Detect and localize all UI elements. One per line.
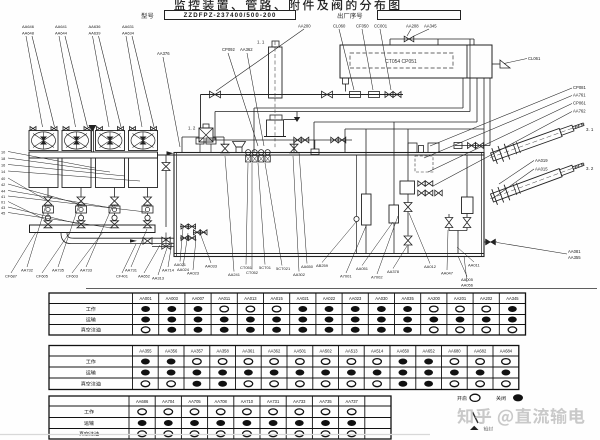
- svg-text:AA705: AA705: [188, 399, 201, 404]
- svg-text:5CT021: 5CT021: [276, 266, 291, 271]
- svg-text:5CT01: 5CT01: [259, 265, 272, 270]
- oval fitting inside tank: [454, 143, 462, 149]
- svg-text:AA682: AA682: [474, 349, 487, 354]
- bushing 1.1 cap: [272, 41, 279, 47]
- turret under bushing 1.1: [270, 115, 282, 120]
- relay to tank pipes: [213, 136, 224, 138]
- leader CC001: [380, 29, 391, 90]
- svg-text:AA208: AA208: [406, 24, 419, 29]
- svg-text:CP092: CP092: [222, 47, 235, 52]
- svg-text:AA345: AA345: [506, 296, 519, 301]
- svg-text:AA011: AA011: [218, 296, 231, 301]
- svg-text:AA202: AA202: [480, 296, 493, 301]
- valve on pipe x=327: [322, 91, 333, 98]
- svg-text:AA302: AA302: [293, 272, 306, 277]
- filling funnel CP092: [233, 142, 246, 148]
- lead seal mark: [470, 426, 479, 430]
- svg-text:3. 2: 3. 2: [586, 166, 594, 171]
- radiator fan unit 1: [29, 131, 58, 151]
- svg-text:AA762: AA762: [573, 109, 586, 114]
- radiator top valve 3a: [97, 127, 103, 131]
- svg-text:AA733: AA733: [80, 268, 93, 273]
- vertical device x=366: [362, 194, 372, 225]
- float x=356: [356, 155, 358, 217]
- svg-text:AA019: AA019: [535, 158, 548, 163]
- svg-text:AA056: AA056: [461, 283, 474, 288]
- bushing 3.2: [491, 169, 563, 202]
- svg-text:18: 18: [1, 157, 5, 161]
- svg-text:CP081: CP081: [573, 85, 586, 90]
- radiator body 2: [62, 158, 91, 188]
- svg-text:AA761: AA761: [573, 93, 586, 98]
- pipe bundle L1: [462, 78, 464, 108]
- svg-text:AA001: AA001: [139, 296, 152, 301]
- valve quad row2: [418, 190, 425, 196]
- valve state table 2: [49, 346, 519, 390]
- legend closed: [496, 396, 505, 401]
- svg-text:AA648: AA648: [22, 31, 35, 36]
- radiator valve stack 3: [114, 188, 116, 198]
- svg-text:AA735: AA735: [319, 399, 332, 404]
- bushing 3.1: [491, 128, 562, 161]
- svg-text:AA313: AA313: [152, 276, 165, 281]
- leader AA646: [26, 36, 43, 127]
- svg-text:AA201: AA201: [454, 296, 467, 301]
- leader AA636: [93, 36, 110, 127]
- svg-text:AA704: AA704: [162, 399, 175, 404]
- svg-text:AA378: AA378: [387, 269, 400, 274]
- svg-text:AA710: AA710: [241, 399, 254, 404]
- oil pipe with arrow between units: [91, 126, 93, 153]
- svg-text:40: 40: [1, 177, 5, 181]
- component CL060 oval: [350, 92, 361, 98]
- gas relay 1.2 box: [199, 128, 213, 142]
- svg-text:AA005: AA005: [461, 277, 474, 282]
- X-valve stacks right: [448, 214, 450, 217]
- svg-text:AA345: AA345: [424, 24, 437, 29]
- svg-text:AA680: AA680: [448, 349, 461, 354]
- drain valve AA081: [484, 241, 497, 243]
- svg-text:AB259: AB259: [316, 263, 329, 268]
- svg-text:AA376: AA376: [157, 51, 170, 56]
- downpipe to gas relay: [200, 95, 202, 129]
- radiator fan unit 4: [129, 131, 158, 151]
- radiator top valve 2a: [63, 127, 69, 131]
- main tank outline: [174, 153, 484, 257]
- svg-text:AA081: AA081: [568, 249, 581, 254]
- right feed pipe to tank y=145.5: [489, 78, 491, 146]
- turret feed stub with arrow: [284, 119, 298, 121]
- svg-text:AA015: AA015: [270, 296, 283, 301]
- fitting block x=315: [311, 149, 319, 155]
- svg-text:AA051: AA051: [356, 266, 369, 271]
- svg-text:AA030: AA030: [375, 296, 388, 301]
- svg-text:AA731: AA731: [125, 268, 138, 273]
- model label 型号: [141, 13, 153, 19]
- radiator valve stack 1: [47, 188, 49, 198]
- valve on return pipe: [143, 238, 152, 245]
- valve state table 3: [49, 396, 391, 439]
- radiator top valve 2b: [84, 127, 90, 131]
- leader AA648: [32, 36, 55, 127]
- svg-text:AA035: AA035: [401, 296, 414, 301]
- svg-text:CF687: CF687: [5, 274, 18, 279]
- svg-text:AA650: AA650: [397, 349, 410, 354]
- svg-text:A7002: A7002: [371, 275, 383, 280]
- radiator valve stack 2: [80, 188, 82, 198]
- svg-text:AA641: AA641: [55, 24, 68, 29]
- svg-text:AA652: AA652: [422, 349, 435, 354]
- svg-text:AA708: AA708: [215, 399, 228, 404]
- svg-text:AA631: AA631: [122, 24, 135, 29]
- svg-text:CL060: CL060: [333, 24, 346, 29]
- svg-text:AA733: AA733: [293, 399, 306, 404]
- svg-text:AA023: AA023: [187, 271, 200, 276]
- svg-text:AA012: AA012: [424, 264, 437, 269]
- valve pair x=338: [331, 137, 338, 143]
- valve AA208/AA345 on bypass: [404, 36, 414, 42]
- svg-text:01: 01: [1, 200, 5, 204]
- dashed box on tank x=424: [415, 156, 433, 172]
- model box ZZDFPZ-237400/500-200: [165, 11, 296, 20]
- radiator top valve 4b: [151, 127, 157, 131]
- valve pair right of box row1: [418, 181, 425, 186]
- valve AA200 on pipe: [210, 91, 221, 98]
- svg-text:AA514: AA514: [371, 349, 384, 354]
- svg-text:AA357: AA357: [191, 349, 204, 354]
- svg-text:AA200: AA200: [298, 24, 311, 29]
- svg-text:AA732: AA732: [21, 268, 34, 273]
- pipe bundle L2: [469, 78, 471, 112]
- svg-text:16: 16: [1, 163, 5, 167]
- svg-text:14: 14: [1, 170, 5, 174]
- breather flag CL061: [492, 63, 500, 65]
- svg-text:AA501: AA501: [294, 349, 307, 354]
- twin inlet valves at tank left: [162, 237, 170, 243]
- radiator body 1: [29, 158, 58, 188]
- svg-text:CF605: CF605: [36, 274, 49, 279]
- radiator top valve 3b: [118, 127, 124, 131]
- radiator fan unit 3: [96, 131, 125, 151]
- svg-text:1. 1: 1. 1: [257, 40, 265, 45]
- leader AA639: [99, 36, 122, 127]
- svg-text:CT052: CT052: [246, 270, 259, 275]
- svg-text:AA686: AA686: [136, 399, 149, 404]
- svg-text:AA355: AA355: [139, 349, 152, 354]
- svg-text:AA241: AA241: [228, 272, 241, 277]
- X-valve on tank top x=294: [290, 144, 298, 153]
- svg-text:AA652: AA652: [138, 274, 151, 279]
- svg-text:3. 1: 3. 1: [586, 127, 594, 132]
- radiator body 3: [96, 158, 125, 188]
- svg-text:43: 43: [1, 206, 5, 210]
- leader CL060: [339, 29, 354, 90]
- leader CF050: [362, 29, 373, 90]
- tank top fitting assembly: [196, 138, 204, 144]
- svg-text:AA636: AA636: [89, 24, 102, 29]
- leader AA200: [216, 29, 304, 91]
- svg-text:AA007: AA007: [192, 296, 205, 301]
- component CF050 oval: [369, 92, 380, 98]
- svg-text:CF050: CF050: [356, 24, 369, 29]
- svg-text:AA200: AA200: [428, 296, 441, 301]
- radiator body 4: [129, 158, 158, 188]
- radiator valve stack 4: [147, 188, 149, 198]
- svg-text:CT054 CP051: CT054 CP051: [385, 59, 417, 65]
- svg-text:AA639: AA639: [89, 31, 102, 36]
- radiator top valve 1a: [30, 127, 36, 131]
- X-valves below box: [407, 194, 409, 203]
- svg-text:AA033: AA033: [205, 264, 218, 269]
- pressure relief box: [407, 129, 409, 181]
- svg-text:AA731: AA731: [267, 399, 280, 404]
- factory serial box: [378, 11, 461, 20]
- connector band to tank: [158, 154, 175, 156]
- factory serial label 出厂序号: [338, 13, 363, 19]
- oil sampler pipe x=366: [365, 129, 367, 194]
- svg-text:AA502: AA502: [319, 349, 332, 354]
- svg-text:CC001: CC001: [374, 24, 388, 29]
- svg-text:AA735: AA735: [52, 268, 65, 273]
- flow arrow: [130, 239, 137, 242]
- svg-text:AA013: AA013: [244, 296, 257, 301]
- svg-text:41: 41: [1, 195, 5, 199]
- radiator bottom manifold: [30, 225, 156, 233]
- svg-text:AA362: AA362: [268, 349, 281, 354]
- svg-text:AA737: AA737: [346, 399, 359, 404]
- leader AA641: [59, 36, 76, 127]
- svg-text:AA047: AA047: [441, 271, 454, 276]
- watermark 知乎 @直流输电: [457, 408, 584, 426]
- valve pair x=301: [294, 137, 301, 143]
- leader AA634: [132, 36, 154, 127]
- flow arrow into tank: [167, 151, 174, 155]
- svg-text:AA015: AA015: [535, 167, 548, 172]
- bypass pipe on conservator top: [390, 38, 474, 40]
- svg-text:AA650: AA650: [301, 264, 314, 269]
- svg-text:ZZDFPZ-237400/500-200: ZZDFPZ-237400/500-200: [184, 12, 277, 19]
- radiator top valve 4a: [130, 127, 136, 131]
- svg-text:AA021: AA021: [297, 296, 310, 301]
- separator rule above tables: [86, 288, 597, 290]
- right device box: [466, 155, 468, 197]
- svg-text:AA356: AA356: [165, 349, 178, 354]
- stub from conservator nub: [345, 84, 347, 92]
- svg-text:AA361: AA361: [242, 349, 255, 354]
- svg-text:CF401: CF401: [116, 274, 129, 279]
- pipe bundle L4: [483, 78, 485, 153]
- svg-text:CL061: CL061: [528, 56, 541, 61]
- conservator right compartment divider: [466, 45, 468, 78]
- leader AA208: [407, 29, 411, 36]
- leader AA345: [414, 29, 429, 36]
- leader AA644: [65, 36, 88, 127]
- svg-text:AA362: AA362: [240, 47, 253, 52]
- svg-text:44: 44: [1, 189, 5, 193]
- svg-text:AA011: AA011: [468, 263, 480, 268]
- valve pair CC001: [385, 92, 393, 98]
- legend open: [457, 396, 466, 401]
- return U-pipe: [61, 233, 174, 244]
- svg-text:AA646: AA646: [22, 24, 35, 29]
- svg-text:CP061: CP061: [573, 101, 586, 106]
- svg-text:45: 45: [1, 211, 5, 215]
- pipe bundle L3: [476, 78, 478, 122]
- title 监控装置、管路、附件及阀的分布图: [174, 0, 399, 11]
- leader AA631: [126, 36, 142, 127]
- svg-text:AA023: AA023: [349, 296, 362, 301]
- svg-text:42: 42: [1, 183, 5, 187]
- svg-text:CF603: CF603: [66, 274, 79, 279]
- radiator top valve 1b: [51, 127, 57, 131]
- X-valve on tank top x=225: [221, 144, 229, 153]
- stubs down from cross pipe: [293, 140, 295, 152]
- valve pair AA019/AA015 inlet: [468, 143, 476, 149]
- small boxes on tank top right: [408, 143, 417, 153]
- svg-text:AA714: AA714: [162, 268, 175, 273]
- conservator left drain nub: [343, 78, 349, 84]
- svg-text:AA003: AA003: [166, 296, 179, 301]
- svg-text:AA634: AA634: [122, 31, 135, 36]
- svg-text:AA513: AA513: [345, 349, 358, 354]
- radiator fan unit 2: [62, 131, 91, 151]
- svg-text:AA358: AA358: [216, 349, 229, 354]
- svg-text:AA644: AA644: [55, 31, 68, 36]
- svg-text:AA022: AA022: [323, 296, 336, 301]
- conservator inner dashed box CT054 CP051: [350, 53, 453, 68]
- vertical device x=394: [393, 122, 395, 205]
- valve state table 1: [49, 293, 526, 335]
- lower drain valves AA021/AA022/AA023: [180, 226, 196, 228]
- conservator body: [340, 45, 492, 78]
- svg-text:10: 10: [1, 150, 5, 154]
- cross pipe y=140: [206, 139, 352, 141]
- main pipe y=94.5: [201, 94, 404, 96]
- riser valve: [165, 155, 167, 163]
- svg-text:1. 2: 1. 2: [188, 126, 196, 131]
- svg-text:AA684: AA684: [500, 349, 513, 354]
- svg-text:A7001: A7001: [340, 274, 352, 279]
- svg-text:AA355: AA355: [568, 255, 581, 260]
- thermometer pocket cluster: [246, 150, 251, 155]
- bushing 1.1 body: [269, 47, 283, 98]
- radiator header band: [29, 152, 158, 158]
